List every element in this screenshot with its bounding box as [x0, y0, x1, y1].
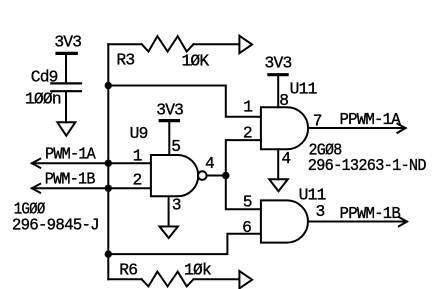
wire U11A pin 4 to ground	[277, 149, 279, 179]
svg-text:296-13263-1-ND: 296-13263-1-ND	[308, 156, 426, 175]
svg-text:6: 6	[242, 218, 251, 237]
svg-text:U11: U11	[290, 79, 317, 98]
svg-text:PPWM-1B: PPWM-1B	[340, 204, 401, 223]
wire bus to U11A pin 1	[108, 86, 261, 117]
power symbol 3V3 (above C49)	[54, 33, 81, 84]
off-page connector arrow (top)	[239, 36, 252, 53]
svg-text:R3: R3	[116, 51, 134, 70]
svg-text:3: 3	[316, 202, 325, 221]
wire U11B pin 6 to bus	[108, 234, 260, 254]
junction: pin6 return on bus	[105, 250, 112, 257]
svg-text:1Øk: 1Øk	[184, 260, 211, 279]
junction: PWM-1A on bus	[105, 160, 112, 167]
wire PWM-1B: arrow to U9 pin 2	[32, 170, 151, 193]
svg-text:5: 5	[243, 193, 252, 212]
resistor R6	[119, 260, 211, 286]
wire: left vertical bus	[107, 44, 109, 279]
svg-text:PWM-1B: PWM-1B	[45, 170, 96, 189]
resistor R3	[116, 36, 209, 70]
wire U9 output to node	[206, 175, 225, 177]
wire PWM-1A: arrow to U9 pin 1	[32, 144, 151, 168]
svg-text:U9: U9	[130, 124, 148, 143]
svg-text:5: 5	[171, 137, 180, 156]
svg-text:4: 4	[205, 154, 214, 173]
svg-text:1: 1	[243, 98, 252, 117]
wire PPWM-1A output with arrow	[308, 110, 405, 133]
svg-text:3V3: 3V3	[156, 101, 183, 120]
AND gate U11B	[261, 186, 326, 243]
svg-text:296-9845-J: 296-9845-J	[12, 215, 99, 234]
svg-text:3V3: 3V3	[54, 33, 81, 52]
svg-text:PWM-1A: PWM-1A	[45, 144, 96, 163]
wire U9 pin 3 to ground	[168, 196, 170, 226]
power symbol 3V3 (above U11A)	[265, 54, 292, 108]
wire PPWM-1B output with arrow	[308, 204, 407, 226]
svg-text:R6: R6	[119, 260, 137, 279]
junction: PWM-1B on bus	[105, 185, 112, 192]
capacitor Cd9 100n	[25, 68, 81, 109]
junction: NAND output node	[222, 172, 229, 179]
svg-text:1ØØn: 1ØØn	[25, 90, 61, 109]
svg-text:2: 2	[133, 170, 142, 189]
svg-text:1: 1	[133, 147, 142, 166]
wire: bus to R3	[108, 43, 141, 45]
wire R3 to off-page arrow	[194, 43, 240, 45]
ground (below U11A)	[269, 179, 288, 191]
wire U11A pin 2 to NAND output node and U11B pin 5	[226, 140, 261, 209]
svg-text:4: 4	[281, 149, 290, 168]
NAND gate U9	[130, 124, 207, 196]
wire R6 to off-page arrow	[194, 278, 240, 280]
svg-text:1ØK: 1ØK	[181, 51, 209, 70]
svg-text:PPWM-1A: PPWM-1A	[339, 110, 400, 129]
AND gate U11A	[261, 79, 317, 149]
wire capacitor to ground	[65, 91, 67, 122]
junction: bus to U11A pin1 wire	[105, 82, 112, 89]
svg-text:3: 3	[172, 196, 181, 215]
ground (below U9)	[160, 227, 178, 239]
off-page connector arrow (bottom)	[239, 271, 252, 288]
svg-text:8: 8	[279, 91, 288, 110]
svg-text:Cd9: Cd9	[31, 68, 58, 87]
ground (below capacitor)	[57, 122, 75, 135]
wire bus to R6	[108, 278, 141, 280]
svg-text:2: 2	[243, 124, 252, 143]
svg-text:3V3: 3V3	[265, 54, 292, 73]
power symbol 3V3 (above U9)	[156, 101, 183, 155]
